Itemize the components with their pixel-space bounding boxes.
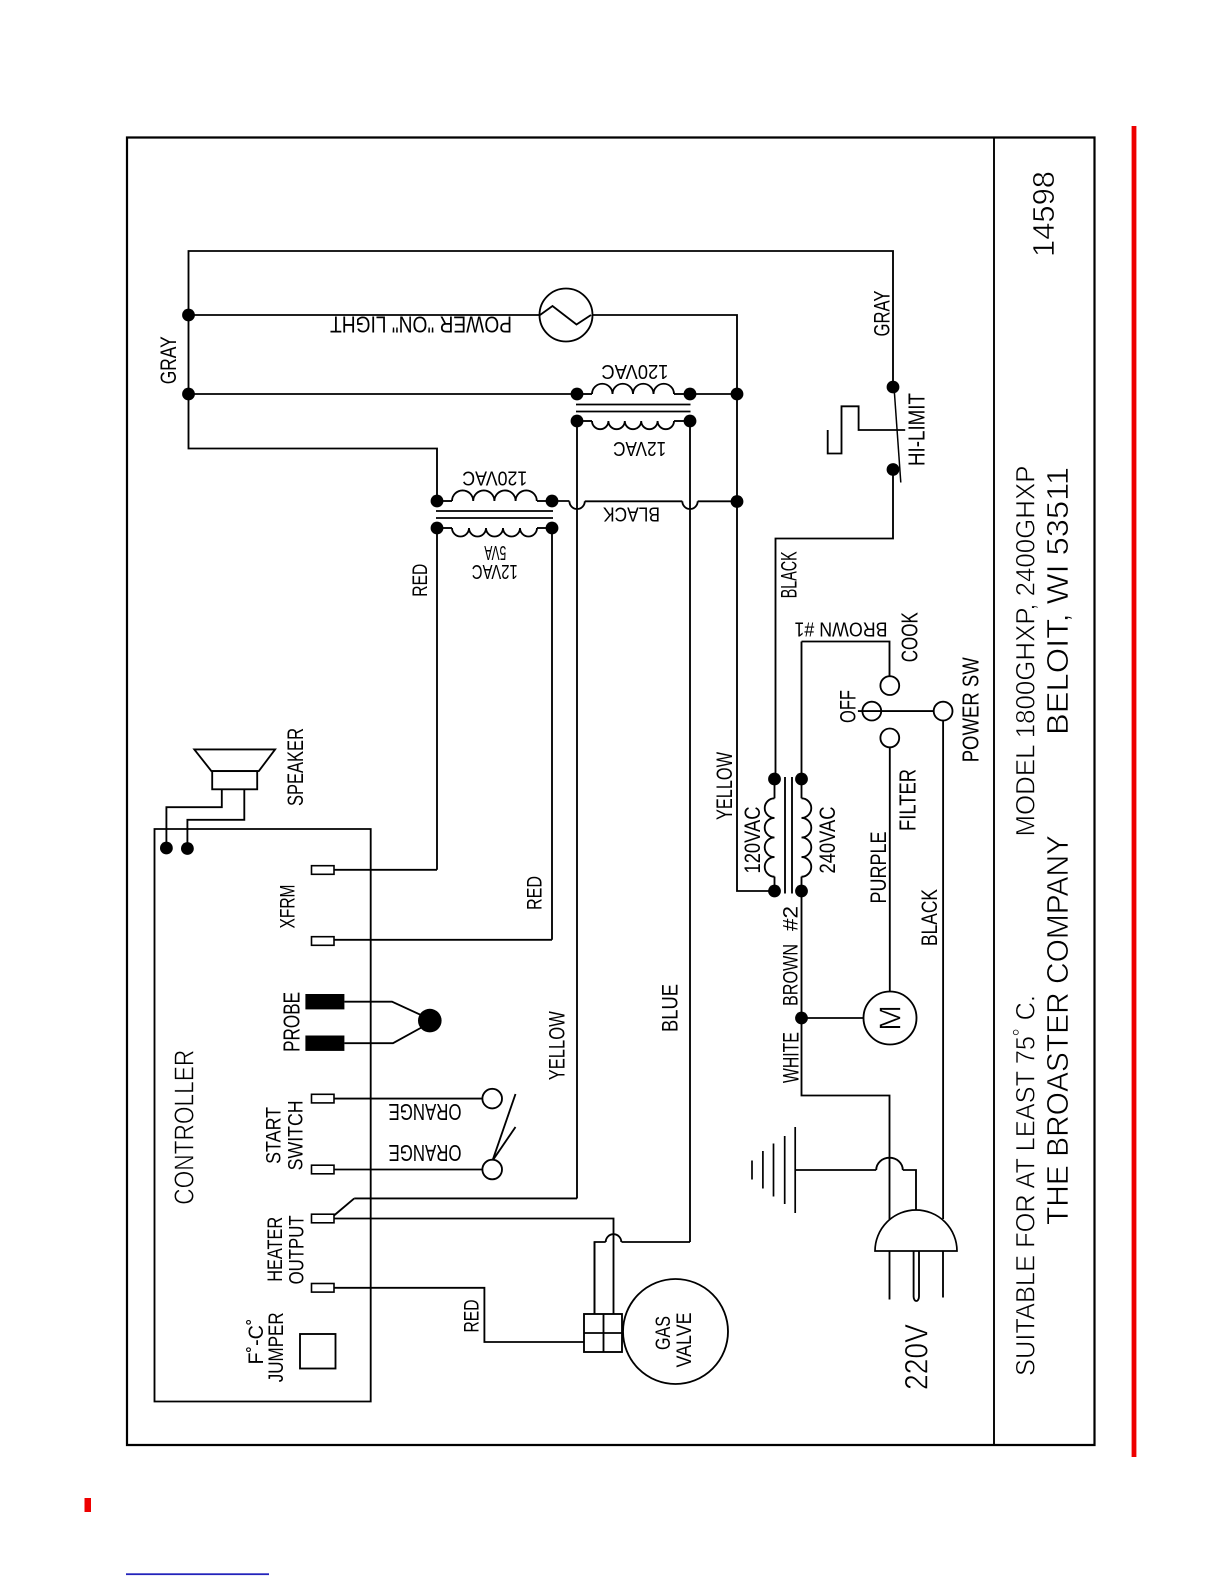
svg-text:JUMPER: JUMPER xyxy=(265,1312,288,1382)
svg-text:START: START xyxy=(263,1107,286,1164)
svg-text:POWER SW: POWER SW xyxy=(958,657,984,762)
svg-text:120VAC: 120VAC xyxy=(740,806,765,873)
svg-text:XFRM: XFRM xyxy=(277,885,300,929)
svg-text:FILTER: FILTER xyxy=(895,769,921,831)
svg-text:WHITE: WHITE xyxy=(778,1032,803,1083)
svg-text:RED: RED xyxy=(461,1300,484,1333)
svg-text:RED: RED xyxy=(524,876,547,910)
svg-text:ORANGE: ORANGE xyxy=(389,1140,462,1166)
svg-text:#2: #2 xyxy=(780,906,803,931)
svg-text:5VA: 5VA xyxy=(484,541,506,563)
svg-text:MODEL 1800GHXP, 2400GHXP: MODEL 1800GHXP, 2400GHXP xyxy=(1011,466,1041,837)
svg-text:YELLOW: YELLOW xyxy=(712,752,737,820)
svg-text:ORANGE: ORANGE xyxy=(389,1099,462,1125)
svg-text:PURPLE: PURPLE xyxy=(866,832,891,904)
svg-text:120VAC: 120VAC xyxy=(601,360,668,382)
svg-text:14598: 14598 xyxy=(1026,171,1061,257)
svg-text:PROBE: PROBE xyxy=(278,992,304,1052)
svg-text:12VAC: 12VAC xyxy=(613,437,666,459)
svg-text:GRAY: GRAY xyxy=(870,290,895,336)
svg-text:12VAC: 12VAC xyxy=(472,560,518,582)
svg-text:SWITCH: SWITCH xyxy=(285,1100,308,1170)
svg-text:BLACK: BLACK xyxy=(917,889,942,946)
svg-text:COOK: COOK xyxy=(897,612,923,662)
svg-text:SPEAKER: SPEAKER xyxy=(283,728,308,806)
svg-text:M: M xyxy=(873,1005,908,1031)
svg-text:BELOIT, WI 53511: BELOIT, WI 53511 xyxy=(1040,467,1075,735)
svg-text:GAS: GAS xyxy=(652,1316,675,1350)
svg-text:YELLOW: YELLOW xyxy=(545,1011,570,1080)
svg-text:BLACK: BLACK xyxy=(602,503,660,525)
svg-text:POWER "ON" LIGHT: POWER "ON" LIGHT xyxy=(330,312,512,338)
svg-text:BLUE: BLUE xyxy=(658,984,683,1032)
svg-text:SUITABLE FOR AT LEAST 75˚ C.: SUITABLE FOR AT LEAST 75˚ C. xyxy=(1011,995,1041,1376)
svg-text:120VAC: 120VAC xyxy=(462,466,527,488)
svg-text:220V: 220V xyxy=(898,1323,934,1390)
svg-text:VALVE: VALVE xyxy=(673,1313,696,1368)
svg-text:GRAY: GRAY xyxy=(156,336,181,384)
svg-text:THE BROASTER COMPANY: THE BROASTER COMPANY xyxy=(1040,835,1075,1225)
svg-text:BROWN: BROWN xyxy=(780,944,803,1006)
svg-text:240VAC: 240VAC xyxy=(815,806,840,873)
svg-text:OUTPUT: OUTPUT xyxy=(285,1215,308,1284)
svg-text:BLACK: BLACK xyxy=(777,551,802,598)
svg-text:OFF: OFF xyxy=(836,690,861,723)
svg-text:CONTROLLER: CONTROLLER xyxy=(169,1050,200,1205)
svg-text:RED: RED xyxy=(409,564,432,597)
svg-text:BROWN #1: BROWN #1 xyxy=(795,618,888,640)
svg-text:HEATER: HEATER xyxy=(264,1217,287,1282)
svg-text:HI-LIMIT: HI-LIMIT xyxy=(904,393,930,466)
